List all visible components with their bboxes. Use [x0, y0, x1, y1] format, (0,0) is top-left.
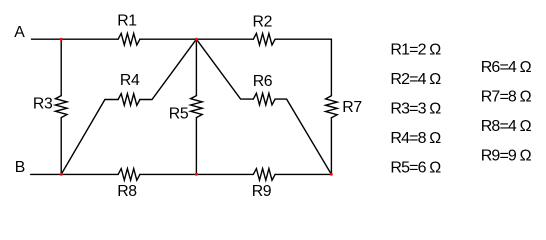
svg-text:B: B	[15, 159, 25, 176]
wire R5 lower: R5 down to bottom-middle junction	[195, 118, 197, 175]
svg-text:R8=4 Ω: R8=4 Ω	[481, 118, 532, 135]
svg-text:R5: R5	[169, 105, 189, 122]
wire top-left: node A to R1	[32, 38, 119, 40]
wire top-middle: R1 to R2 through apex junction	[140, 38, 253, 40]
junction bottom-right R6/R7/R9	[330, 173, 333, 176]
svg-text:R9: R9	[252, 183, 272, 200]
svg-text:R5=6 Ω: R5=6 Ω	[390, 159, 441, 176]
wire R6 branch lower diagonal: R6 down to bottom-right junction	[275, 99, 331, 174]
resistor R8	[118, 169, 140, 181]
resistor R5	[191, 96, 203, 118]
resistor R1	[118, 33, 140, 45]
resistor R2	[253, 33, 275, 45]
svg-text:R6=4 Ω: R6=4 Ω	[481, 59, 532, 76]
resistor R3	[55, 96, 67, 118]
wire R4 branch upper diagonal: R4 up to apex junction	[140, 39, 197, 99]
wire bottom-left: node B to R8	[31, 173, 119, 175]
svg-text:R7=8 Ω: R7=8 Ω	[481, 88, 532, 105]
wire bottom-right: R9 to bottom-right junction	[275, 173, 331, 175]
wire right branch upper: top-right corner down to R7	[330, 39, 332, 96]
svg-text:R2=4 Ω: R2=4 Ω	[390, 71, 441, 88]
wire R4 branch lower diagonal: bottom-left junction up to R4	[61, 100, 118, 175]
wire left branch upper: junction to R3	[60, 39, 62, 95]
junction apex node R1/R2/R4/R5/R6	[195, 38, 198, 41]
svg-text:R4=8 Ω: R4=8 Ω	[390, 130, 441, 147]
svg-text:R8: R8	[117, 183, 137, 200]
svg-text:R3=3 Ω: R3=3 Ω	[390, 100, 441, 117]
resistor R6	[253, 93, 275, 105]
svg-text:R7: R7	[342, 99, 362, 116]
svg-text:R3: R3	[33, 96, 53, 113]
svg-text:R2: R2	[253, 13, 273, 30]
svg-text:R4: R4	[120, 72, 140, 89]
wire right branch lower: R7 down to bottom-right junction	[330, 118, 332, 175]
svg-text:A: A	[14, 24, 25, 41]
resistor R4	[118, 94, 140, 106]
junction bottom-middle R5/R8/R9	[195, 173, 198, 176]
svg-text:R1=2 Ω: R1=2 Ω	[390, 41, 441, 58]
svg-text:R6: R6	[253, 73, 273, 90]
wire left branch lower: R3 to bottom-left junction	[60, 118, 62, 175]
svg-text:R9=9 Ω: R9=9 Ω	[481, 147, 532, 164]
junction node A / R3 top	[60, 38, 63, 41]
resistor R7	[326, 96, 338, 118]
svg-text:R1: R1	[117, 13, 137, 30]
junction node B / R3/R4/R8	[60, 173, 63, 176]
resistor R9	[253, 169, 275, 181]
wire R5 upper: apex junction down to R5	[195, 39, 197, 95]
wire top-right: R2 to top-right corner	[275, 38, 331, 40]
wire bottom-middle: R8 to R9 through bottom-middle junction	[140, 173, 253, 175]
wire R6 branch upper diagonal: apex junction down to R6	[196, 39, 253, 99]
